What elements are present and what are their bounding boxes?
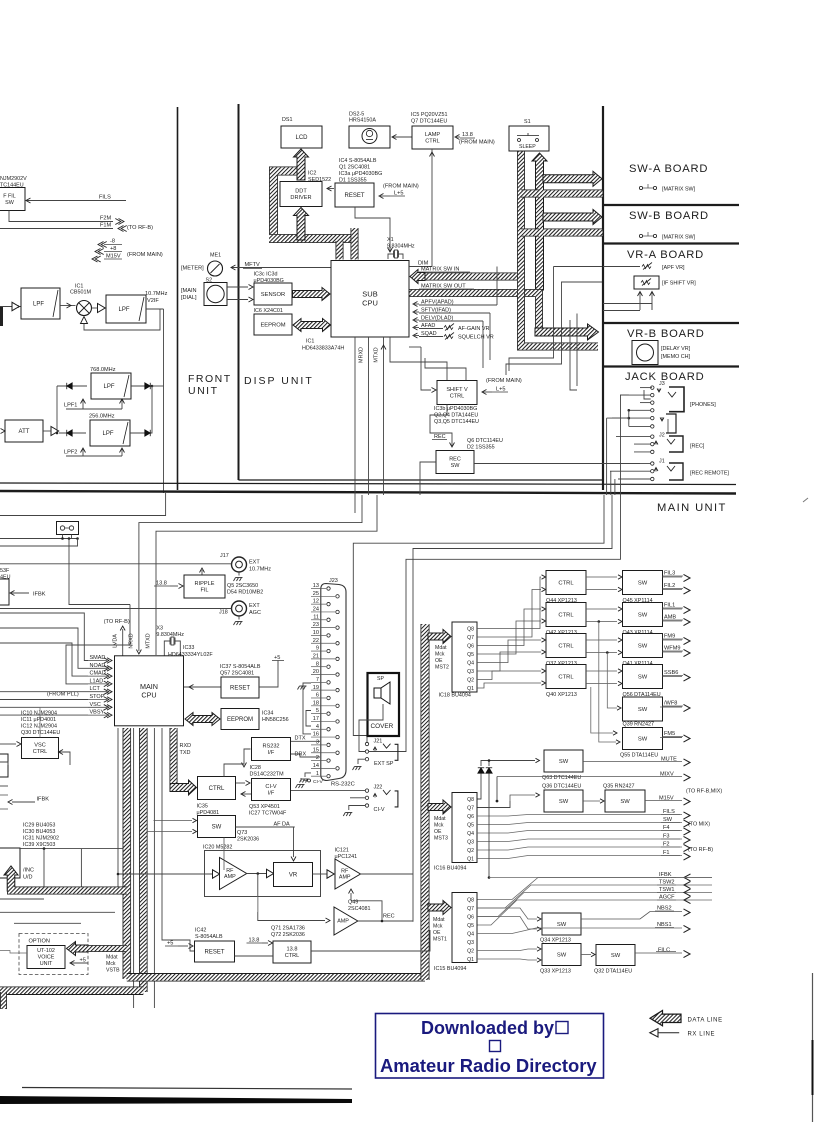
data bus cpu to eeprom (double arrow) [185,713,220,726]
block DDT DRIVER IC2 [280,182,322,207]
wire jack board verticals down [606,418,608,495]
diode right of LPF1 [131,385,152,387]
svg-text:Q2: Q2 [467,848,474,854]
svg-text:Q6 DTC114EU: Q6 DTC114EU [467,438,503,444]
block VR (volume) [274,863,313,887]
wire [607,417,629,419]
block CI-V I/F Q53 [252,779,291,801]
svg-text:IC31 NJM2902: IC31 NJM2902 [23,836,59,842]
block UT-102 VOICE UNIT [27,946,65,969]
block SW FM5 Q55 [623,728,663,750]
svg-text:SW: SW [638,675,648,681]
wire [576,314,578,387]
jack J3 inner plug 2 [666,414,676,433]
option dashed box [19,934,88,975]
svg-text:Q4: Q4 [467,932,474,938]
ground at J23 pin 1 [305,773,311,777]
data bus arrow into LCD [294,149,309,180]
svg-text:Q35 RN2427: Q35 RN2427 [603,784,634,790]
data bus arrow into IC18 [428,630,451,644]
svg-text:Q5: Q5 [467,652,474,658]
wire cpu down thin 2 [133,728,135,1008]
svg-text:Q2: Q2 [467,949,474,955]
svg-text:Q5: Q5 [467,923,474,929]
wire rs232 into j23 DRX [291,754,320,757]
svg-text:[DIAL]: [DIAL] [181,295,197,301]
pot IF SHIFT VR [634,276,659,289]
wire APFV [419,304,497,306]
wire SFTV [419,312,490,314]
data bus main cpu down B [139,728,148,992]
svg-text:FIL: FIL [200,588,208,594]
data bus cross piece 1 [521,190,539,198]
data bus arrow into IC16 [428,800,451,814]
attenuator ATT [5,420,43,442]
wire - disp unit right / boards left border x=603 [602,106,604,490]
svg-text:SW-B BOARD: SW-B BOARD [629,210,709,222]
svg-text:SW: SW [559,759,569,765]
svg-text:Q1: Q1 [467,857,474,863]
svg-text:JACK BOARD: JACK BOARD [625,371,705,383]
amplifier AMP Q49 [334,907,358,935]
wire IF SHIFT feed 2 [482,321,484,368]
wire [354,495,356,513]
svg-text:IC37 S-8054ALB: IC37 S-8054ALB [220,664,261,670]
ground at J23 pin 19 [303,683,311,734]
svg-text:CI-V: CI-V [313,779,324,785]
wire MTXD down [383,337,385,495]
wire DELV [419,320,483,322]
speaker SP symbol [374,682,390,704]
switch matrix sw A symbol [639,186,642,189]
svg-text:CTRL: CTRL [209,786,225,792]
svg-text:RESET: RESET [230,686,250,692]
data bus arrow into DDT DRIVER [294,208,309,241]
svg-text:IC3b μPD4030BG: IC3b μPD4030BG [434,406,477,412]
cpu U-SUB CPU IC1 [331,261,409,338]
svg-text:Mdat: Mdat [434,816,446,822]
wire into q36 sw [510,795,535,801]
wire vertical feed from CTRL2 to FM5 SW [598,620,601,623]
divider SW-B/VR-A [603,242,739,244]
svg-text:HD6433833A74H: HD6433833A74H [302,346,344,352]
amplifier RF AMP IC20 [220,858,247,890]
wire rec sw right to jack J1 [474,463,640,465]
switch matrix sw B symbol [639,234,642,237]
svg-text:IC12 NJM2904: IC12 NJM2904 [21,724,57,730]
svg-text:SUB: SUB [362,290,377,299]
svg-text:[MATRIX SW]: [MATRIX SW] [662,187,696,193]
wire 768 row split [56,386,58,433]
svg-text:Q1 2SC4081: Q1 2SC4081 [339,165,370,171]
svg-text:IC121: IC121 [335,848,349,854]
pot SQUELCH VR [444,333,454,340]
wire ripple fil up arrow [201,570,203,575]
wire [488,761,490,767]
svg-text:LPF2: LPF2 [64,450,77,456]
svg-text:VR-A BOARD: VR-A BOARD [627,249,704,261]
pot APF VR [642,263,652,270]
svg-text:J1: J1 [659,459,665,465]
shift register IC18 BU4094 [452,622,477,692]
wire [311,930,430,951]
wire rec sw output down into main [419,478,421,495]
svg-text:-8: -8 [110,239,115,245]
svg-text:Q6: Q6 [467,644,474,650]
wire [570,320,577,390]
svg-text:IC15 BU4094: IC15 BU4094 [434,966,466,972]
wire q7 to sw [477,801,510,808]
amplifier RF AMP IC121 [335,859,361,889]
svg-text:2SC4081: 2SC4081 [348,906,370,912]
svg-text:SP: SP [377,676,384,682]
svg-text:VR: VR [289,873,298,879]
svg-text:Q4: Q4 [467,831,474,837]
svg-text:DTX: DTX [295,736,306,742]
svg-text:CTRL: CTRL [558,613,574,619]
svg-text:SW: SW [611,953,621,959]
wire lct [0,691,88,693]
svg-text:Mdat: Mdat [433,917,445,923]
wire REC into REC SW [430,405,452,448]
wire into rf amp chain from cpu drop [117,873,120,876]
wire rec remote contacts left [640,463,651,465]
svg-text:IC2: IC2 [308,171,316,177]
node - right edge tick mark [803,498,808,502]
wire LVDA up arrow [122,629,124,656]
svg-text:Q40 XP1213: Q40 XP1213 [546,692,577,698]
data bus arrow to SW-A board [543,171,602,186]
svg-text:Q32 DTA114EU: Q32 DTA114EU [594,969,632,975]
wire MRXD from disp to main cpu NRXD [139,495,362,651]
svg-text:S-8054ALB: S-8054ALB [195,934,223,940]
wire [59,752,71,765]
svg-text:(FROM MAIN): (FROM MAIN) [127,252,163,258]
svg-text:13.8: 13.8 [287,946,298,952]
svg-text:AMP: AMP [339,874,351,880]
wire diode to mute [481,761,535,767]
svg-text:Q33 XP1213: Q33 XP1213 [540,969,571,975]
wire ic15 q-pins to sw33 [477,949,537,951]
svg-text:LPF1: LPF1 [64,403,77,409]
wire q36 to q35 [583,800,600,802]
svg-text:(TO RF-B): (TO RF-B) [127,225,153,231]
wire +5 into voice unit [70,962,88,964]
svg-text:10.7MHz: 10.7MHz [145,291,168,297]
wire J21 sleeve to gnd [358,759,365,764]
wire X3 left leg [164,641,167,656]
svg-text:SW: SW [5,200,15,206]
block REC SW Q6 [436,451,474,474]
svg-text:EEPROM: EEPROM [260,323,285,329]
svg-text:9.8304MHz: 9.8304MHz [387,244,415,250]
svg-text:RS-232C: RS-232C [331,782,355,788]
wire 768 row output to v2if line [152,385,164,387]
wire bus y546 [0,539,78,547]
svg-text:IFBK: IFBK [37,797,50,803]
svg-text:SW: SW [451,463,461,469]
wire into vsc ctrl left [0,743,16,745]
svg-text:Q3: Q3 [467,669,474,675]
buffer triangle [12,302,19,310]
svg-text:256.0MHz: 256.0MHz [89,414,115,420]
svg-text:IC28: IC28 [250,765,261,771]
block RS232 I/F IC28 [252,738,291,761]
svg-text:EXT SP: EXT SP [374,761,394,767]
svg-text:Q8: Q8 [467,797,474,803]
svg-text:VR-B BOARD: VR-B BOARD [627,328,705,340]
svg-text:SHIFT V: SHIFT V [446,387,468,393]
wire apf vr [603,266,640,268]
data bus left edge downstub [0,992,7,1009]
data bus sensor to sub cpu [293,288,331,301]
svg-text:SW: SW [638,581,648,587]
svg-text:F2M: F2M [100,216,112,222]
svg-text:CTRL: CTRL [450,394,465,400]
svg-text:Q72 2SK2036: Q72 2SK2036 [271,932,305,938]
svg-text:SW: SW [557,953,567,959]
wire bus into plug y538 [0,538,78,540]
svg-text:X1: X1 [387,237,394,243]
wire [238,572,240,576]
wire q33 to q32 [581,954,591,956]
wire FILS into RF FIL SW [26,200,126,202]
wire mixv tap [496,777,498,802]
svg-text:[MAIN: [MAIN [181,288,197,294]
svg-text:RESET: RESET [204,950,224,956]
wire CTRL to SW rows [586,576,617,578]
svg-text:DS1: DS1 [282,117,293,123]
svg-text:FRONT: FRONT [188,373,232,385]
svg-text:(FROM PLL): (FROM PLL) [47,692,79,698]
jack J21 plug symbol [383,744,391,749]
wire from RF FIL SW down [9,211,113,222]
svg-text:J21: J21 [374,739,383,745]
svg-text:ATT: ATT [19,429,30,435]
svg-text:[REC REMOTE]: [REC REMOTE] [690,471,729,477]
block SW Q41 XP1114 [623,634,663,658]
svg-text:[REC]: [REC] [690,444,705,450]
wire J22 ring left [350,797,365,799]
svg-text:Q57 2SC4081: Q57 2SC4081 [220,671,254,677]
svg-text:LPF: LPF [118,307,129,313]
svg-text:EXT: EXT [249,560,260,566]
wire vsc up to cpu [40,707,88,737]
svg-text:RIPPLE: RIPPLE [195,581,215,587]
wire civ right to J22 [291,790,366,792]
wire 13.8 into ctrl [262,942,268,944]
svg-text:AF-GAIN VR: AF-GAIN VR [458,326,490,332]
svg-text:SW: SW [638,613,648,619]
wire [603,304,652,311]
svg-text:MRXD: MRXD [359,347,365,363]
component stub at left page edge [0,306,3,326]
svg-text:OPTION: OPTION [29,939,50,945]
block SW Q45 XP1114 [623,571,663,595]
diode pair to mute sw [478,768,484,773]
svg-text:MTXD: MTXD [374,347,380,362]
svg-text:SW: SW [620,799,630,805]
svg-text:U/D: U/D [23,875,33,881]
wire AFAD [419,328,443,330]
svg-text:IC27 TC7W04F: IC27 TC7W04F [249,811,287,817]
svg-text:CI-V: CI-V [265,784,276,790]
wire l1ad [66,605,130,684]
data bus arrow up into audio filter [4,866,18,891]
svg-text:LPF: LPF [33,302,44,308]
svg-text:SW: SW [559,799,569,805]
divider SW-A/SW-B [603,204,739,206]
block CTRL Q42 XP1213 [546,603,586,627]
wire dial to sensor 2 [227,299,248,301]
svg-text:10.7MHz: 10.7MHz [249,567,271,573]
svg-text:Q5 2SC3650: Q5 2SC3650 [227,583,258,589]
svg-text:Q39 RN2427: Q39 RN2427 [623,722,654,728]
wire noad [0,628,88,668]
ground civ mid [296,785,305,789]
wire APF VR up to board line [496,267,498,306]
svg-text:CPU: CPU [141,690,156,699]
svg-text:CTRL: CTRL [425,139,440,145]
svg-text:OE: OE [434,829,442,835]
svg-text:(FROM MAIN): (FROM MAIN) [486,378,522,384]
svg-text:768.0MHz: 768.0MHz [90,367,116,373]
svg-text:IFBK: IFBK [33,592,46,598]
svg-text:TXD: TXD [180,750,191,756]
wire drops into /INC bus [43,849,45,887]
wire vertical feed from CTRL3 to /WF8 SW [606,651,609,654]
wire L+5 into shift v ctrl [482,391,492,393]
wire dial to sensor 1 [227,286,248,288]
cpu U-MAIN CPU IC33 [115,656,184,726]
wire jack J3 line down-left to J21 [353,495,604,743]
svg-text:RS232: RS232 [262,743,279,749]
data bus band to SW-A board lower [543,190,603,198]
wire cpu down thin 3 [153,728,155,1008]
svg-text:Q2: Q2 [467,678,474,684]
svg-text:VSC: VSC [34,742,46,748]
svg-text:[DELAY VR]: [DELAY VR] [661,346,691,352]
watermark box Downloaded by Amateur Radio Directory [376,1014,604,1079]
wire IFBK into left block [10,591,15,596]
svg-text:/INC: /INC [23,868,34,874]
wire smad routing from left [0,613,88,661]
data bus arrow to VR-B board [535,324,599,340]
svg-text:CTRL: CTRL [33,749,48,755]
block VSC CTRL [22,738,59,759]
svg-text:FILS: FILS [99,195,111,201]
svg-text:UNIT: UNIT [40,961,53,967]
svg-text:Q49: Q49 [348,900,358,906]
wire vsc [0,706,88,708]
svg-text:J23: J23 [329,578,338,584]
svg-text:DATA LINE: DATA LINE [688,1017,723,1023]
wire IC18 outputs to CTRL inputs [477,577,541,629]
svg-text:μPC1241: μPC1241 [335,854,358,860]
svg-text:REC: REC [449,457,461,463]
svg-text:LCD: LCD [295,135,308,141]
svg-text:IC16 BU4094: IC16 BU4094 [434,866,466,872]
wire - main unit top border thick line [0,491,736,494]
data bus MATRIX SW IN [416,273,521,281]
svg-text:NRXD: NRXD [129,633,135,648]
svg-text:(TO RF-B): (TO RF-B) [104,619,130,625]
svg-text:Mdat: Mdat [435,645,447,651]
data bus stubs into SUB CPU top [336,241,344,260]
left edge wire stubs [0,762,8,765]
svg-text:53F: 53F [0,568,10,574]
jack J22 plug symbol [383,790,391,795]
amplifier block IC20 (outer box) [205,851,321,897]
svg-text:SW-A BOARD: SW-A BOARD [629,163,708,175]
svg-text:SW: SW [638,737,648,743]
svg-text:D2 1SS355: D2 1SS355 [467,445,495,451]
diode left of LPF2 [59,432,86,434]
svg-text:Q3: Q3 [467,840,474,846]
wire mixer LO from below [81,317,88,324]
wire cmad [0,643,88,676]
jack J1 plug symbol [669,463,683,480]
svg-text:DS14C232TM: DS14C232TM [250,772,285,778]
wire to boards x561 (IF SHIFT) [506,282,602,375]
svg-text:S1: S1 [524,119,531,125]
wire cpu down thin 1 [117,728,119,887]
wire diode anode2 [488,774,490,791]
wire rf amp2 out right [361,873,414,875]
svg-text:HN58C256: HN58C256 [262,717,289,723]
svg-text:Q53 XP4501: Q53 XP4501 [249,804,280,810]
wire if shift feeds [639,292,641,310]
svg-text:Q30 DTC144EU: Q30 DTC144EU [21,730,60,736]
wire - disp unit bottom edge [239,479,604,481]
svg-text:OE: OE [433,930,441,936]
wire SQAD [419,336,443,338]
wire jack line 3 down-left to J21 ring [359,495,621,752]
buffer triangle before rf amp 2 [327,870,334,878]
wire vr out to rf amp2 [313,873,328,875]
svg-text:Q36 DTC144EU: Q36 DTC144EU [542,784,581,790]
data bus arrow to SW-B board [543,210,602,225]
wire civ to ctrl return [241,793,251,795]
svg-text:SW: SW [557,922,567,928]
svg-text:J17: J17 [220,553,229,559]
svg-text:Mdat: Mdat [106,955,118,961]
wire jack line 2 down-left to REC amp [413,495,612,922]
wire [238,616,240,620]
svg-text:[METER]: [METER] [181,266,204,272]
wire plug drop to SMAD routing [69,539,130,605]
svg-text:Mck: Mck [106,961,116,967]
svg-text:Q8: Q8 [467,627,474,633]
svg-text:RESET: RESET [344,193,364,199]
svg-text:I/F: I/F [268,750,275,756]
svg-text:Q7: Q7 [467,635,474,641]
block RESET IC37 [221,677,259,698]
block - RF FIL SW [0,188,25,211]
svg-text:IC5 PQ20VZ51: IC5 PQ20VZ51 [411,112,448,118]
svg-text:(TO RF-B,MIX): (TO RF-B,MIX) [686,789,722,795]
svg-text:IC30 BU4053: IC30 BU4053 [23,829,55,835]
svg-text:Amateur Radio Directory: Amateur Radio Directory [380,1055,597,1076]
svg-text:IC20 M5282: IC20 M5282 [203,845,232,851]
wire [300,778,302,782]
wire amp input from vr junction [258,874,325,921]
pot AF-GAIN VR [444,324,454,331]
svg-text:Downloaded by: Downloaded by [421,1018,554,1038]
buffer triangle before VR [267,869,274,877]
wire - bottom black bar (page edge) [0,1096,352,1104]
block fragment at left page edge [0,579,9,605]
